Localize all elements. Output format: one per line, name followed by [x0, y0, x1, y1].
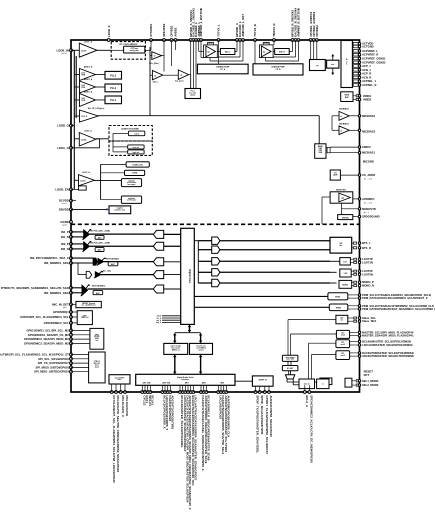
left pin IN1_P	[70, 231, 73, 234]
svg-text:CP_A: CP_A	[220, 68, 225, 71]
svg-text:Slave_SDA: Slave_SDA	[362, 319, 376, 323]
bottom pin BCLK1	[149, 391, 152, 394]
dashed analog/digital divider	[71, 223, 360, 225]
left pin LDOB_O	[70, 124, 73, 127]
right pin ACN_1	[351, 69, 354, 71]
LDO3 enable wire	[71, 188, 79, 190]
svg-text:SPDGROUND: SPDGROUND	[362, 215, 380, 219]
svg-text:CPVDDA: CPVDDA	[315, 25, 319, 37]
bottom pin BCLK5	[205, 391, 208, 394]
svg-text:esd: esd	[331, 64, 334, 66]
left pin GPIO4/DMIC2_SDA/SPI_MISO_M2	[70, 342, 73, 345]
svg-text:AVDD1_A: AVDD1_A	[84, 78, 93, 81]
top pin CPVDD1_A/VBSTX	[309, 39, 312, 42]
svg-text:mst2: mst2	[341, 343, 345, 346]
right pin LOUT1N	[358, 261, 360, 263]
svg-text:+mixers: +mixers	[198, 349, 204, 351]
sound trigger box	[282, 355, 298, 361]
svg-text:IN1_N: IN1_N	[61, 235, 69, 239]
right pin MICBIAS2	[358, 115, 360, 117]
svg-text:SPI / I2C: SPI / I2C	[94, 363, 101, 365]
master i2c box 2	[336, 340, 350, 348]
bottom pin CYCLE	[141, 391, 144, 394]
wire micbias inputs	[332, 115, 339, 117]
svg-text:AIF4: AIF4	[202, 382, 206, 385]
svg-text:IN4_P/TDOUT1_SDA/DWS_SADB/DMIC: IN4_P/TDOUT1_SDA/DWS_SADB/DMIC1_SDA+PN_S…	[0, 286, 69, 290]
left pin SPI_CS_S/UTDX/GPIO7	[70, 362, 73, 365]
top pin CPVDD2_A/VBSPX	[312, 39, 315, 42]
LDO3 feedback box	[79, 186, 87, 190]
svg-text:(rs ...): (rs ...)	[364, 212, 369, 214]
svg-text:DAC R: DAC R	[279, 51, 285, 54]
svg-text:CP_B: CP_B	[276, 69, 281, 71]
svg-text:ACPSEL_1: ACPSEL_1	[362, 79, 376, 83]
svg-text:SEL2_MODE: SEL2_MODE	[362, 383, 378, 387]
master wires down	[291, 333, 337, 335]
input row mid mux	[77, 263, 79, 275]
svg-text:AIF3: AIF3	[185, 382, 189, 385]
svg-text:GPIO6/SPI_SCL_FLASH/DMIC3_SCL: GPIO6/SPI_SCL_FLASH/DMIC3_SCL	[20, 315, 69, 319]
svg-text:VMID2: VMID2	[363, 98, 372, 102]
svg-text:Digital Core: Digital Core	[188, 269, 191, 283]
hp amp L	[208, 42, 214, 45]
right pin ACPSEL_R	[351, 84, 354, 86]
right pin MASTER_SDA	[358, 335, 360, 337]
charge pump box L	[197, 64, 248, 74]
left pin MIC_IN_DET	[70, 303, 73, 306]
input row y234.1	[71, 231, 84, 233]
svg-text:async sample: async sample	[170, 346, 181, 348]
svg-text:GPIO4/DMIC2_SDA/SPI_MISO_M2: GPIO4/DMIC2_SDA/SPI_MISO_M2	[24, 341, 69, 345]
svg-text:PDM1: PDM1	[335, 296, 340, 298]
svg-text:MICBIAS3: MICBIAS3	[362, 130, 375, 134]
bottom pin MCLK1	[119, 391, 122, 394]
svg-text:MIC_IN_DET: MIC_IN_DET	[52, 302, 69, 306]
wire DBVDD	[71, 208, 107, 210]
bottom pin LRCLK3	[181, 391, 184, 394]
svg-text:PLL3: PLL3	[110, 74, 117, 77]
right pin VMID2	[353, 99, 356, 101]
VMID buffer	[341, 92, 353, 102]
right pin MONOVDD	[358, 208, 360, 210]
ldo rail lower	[73, 126, 75, 190]
svg-text:ADCDAT2/GPIO25/TWI3: ADCDAT2/GPIO25/TWI3	[170, 395, 174, 429]
svg-text:PDM2: PDM2	[336, 307, 341, 309]
accessory-detect block U_ACC	[341, 41, 352, 88]
svg-text:ld: ld	[154, 76, 156, 78]
svg-text:IN1_P: IN1_P	[61, 230, 69, 234]
svg-text:OUTR: OUTR	[264, 43, 270, 45]
vref box with arrows	[327, 60, 339, 68]
svg-text:(rs ... ers): (rs ... ers)	[364, 179, 372, 181]
bottom pin EXTCLK	[110, 391, 113, 394]
svg-text:MONO_N: MONO_N	[362, 284, 374, 288]
svg-text:LRCLK6/MASTER_SDA2/GPIO13/DWSC: LRCLK6/MASTER_SDA2/GPIO13/DWSC	[362, 343, 413, 347]
svg-text:ACTGND: ACTGND	[362, 45, 374, 49]
right pin BTS_L	[358, 242, 360, 244]
svg-text:spk: spk	[341, 198, 344, 200]
cs_addr box	[330, 170, 340, 180]
bottom pin BCLK3	[179, 391, 182, 394]
svg-text:LDO3: LDO3	[80, 181, 85, 183]
left pin DCVDD	[70, 199, 73, 202]
right pin ACPVREF_L	[351, 50, 354, 52]
svg-text:x1: x1	[340, 116, 342, 118]
svg-text:slv: slv	[341, 320, 344, 322]
svg-text:BCLK5/SWCLK_DBG/GPIO18/MASTER_: BCLK5/SWCLK_DBG/GPIO18/MASTER_SDA9	[206, 395, 210, 460]
svg-text:MONO: MONO	[343, 284, 349, 286]
svg-text:AVDD2: AVDD2	[174, 27, 178, 37]
right pin DACDAT6/MA	[358, 352, 360, 354]
left pin LDOB_IN	[70, 49, 73, 52]
svg-text:AUXPDM/GPIO26/DWS6_CLK: AUXPDM/GPIO26/DWS6_CLK	[226, 395, 230, 438]
svg-text:LO1: LO1	[343, 261, 347, 263]
svg-text:IN2_P: IN2_P	[61, 242, 69, 246]
top pin DACREF_L	[195, 39, 198, 42]
svg-text:GPIO5/IRQ1: GPIO5/IRQ1	[53, 310, 69, 314]
regulator dashed box upper	[109, 126, 152, 142]
input row IN4	[71, 287, 82, 289]
left pin LDOA_O	[70, 146, 73, 149]
svg-text:ACP_1: ACP_1	[362, 64, 371, 68]
svg-text:clocks: clocks	[190, 94, 195, 96]
reg rounded box 4	[101, 199, 122, 201]
svg-text:MCLKX2/GPIO: MCLKX2/GPIO	[125, 395, 129, 416]
svg-text:ADC: ADC	[98, 236, 103, 239]
sample rate conv box 1	[164, 343, 188, 354]
left pin IN3_P/N V4/DMIC0CL_SDA_X	[70, 257, 73, 260]
right pin LOUT2N	[358, 273, 360, 275]
svg-text:PDM_DAT2/GPIO8/ADCDAT_SDA/DMIC: PDM_DAT2/GPIO8/ADCDAT_SDA/DMIC3_SCL/AUXP…	[362, 307, 435, 311]
wire mono box to MONOVDD	[341, 203, 343, 209]
top pin AMPGND_L_BST	[242, 39, 245, 42]
right pin ACPVREF_R	[351, 54, 354, 56]
left pin GPIO1/DWS1_SCL/SPI_SCL_M2	[70, 329, 73, 332]
right pin MONO_P	[358, 281, 360, 283]
svg-text:ADC: ADC	[111, 263, 116, 266]
svg-text:LDO1_A: LDO1_A	[84, 40, 92, 43]
svg-text:MASTER_SDA4/SPI_MOSI_FLASH/GP4: MASTER_SDA4/SPI_MOSI_FLASH/GP41	[362, 334, 414, 338]
svg-text:FREF2: FREF2	[362, 145, 371, 149]
svg-text:LO2: LO2	[344, 273, 348, 275]
svg-text:slave: slave	[95, 365, 99, 367]
right pin VMID1	[353, 95, 356, 97]
svg-text:CTRL IF: CTRL IF	[94, 361, 100, 363]
dac row tag y283.0	[198, 282, 211, 284]
right pin FREF2	[358, 146, 360, 148]
svg-text:freq_gener: freq_gener	[175, 81, 184, 83]
gpio box	[77, 311, 92, 325]
right pin ACTVDD	[351, 43, 354, 45]
svg-text:LDOB_IN: LDOB_IN	[57, 48, 69, 52]
svg-text:LOUT2N: LOUT2N	[362, 272, 373, 276]
bottom pin DACDAT2	[166, 391, 169, 394]
svg-text:ACPVREF_R: ACPVREF_R	[362, 53, 378, 57]
left pin LDOB_EN	[70, 188, 73, 191]
svg-text:AMPGND_L_BST: AMPGND_L_BST	[241, 14, 245, 37]
right pin AVDDRF1	[358, 198, 360, 200]
right pin CS_ADDR	[358, 174, 360, 176]
bottom pin ADCDAT4	[202, 391, 205, 394]
LDO2 feedback	[96, 138, 100, 140]
svg-text:AUXDAT/DWS6_SDA/GPIO30: AUXDAT/DWS6_SDA/GPIO30	[269, 395, 273, 437]
svg-text:low-cages: low-cages	[128, 184, 136, 186]
svg-text:IN3_N/DMIC1_SDA: IN3_N/DMIC1_SDA	[44, 261, 69, 265]
svg-text:MCLK1/GPO_X: MCLK1/GPO_X	[121, 395, 125, 417]
left pin GPIO3/DMIC2_SDA/SPI_MOSI_M2	[70, 338, 73, 341]
svg-text:MONO_P: MONO_P	[362, 280, 374, 284]
bottom pin ADCDAT3	[187, 391, 190, 394]
left pin GPIO5/IRQ1	[70, 311, 73, 314]
svg-text:(core): (core)	[62, 203, 67, 205]
svg-text:BCLK1: BCLK1	[150, 395, 154, 405]
bottom pin ADCDAT5	[222, 391, 225, 394]
right pin MONO_N	[358, 284, 360, 286]
always on box	[282, 366, 298, 371]
digital core block	[181, 228, 195, 324]
PLL3 box	[105, 71, 122, 79]
svg-text:logic ret: logic ret	[133, 151, 140, 154]
right pin Slave_SCL	[358, 317, 360, 319]
svg-text:LDOD_X: LDOD_X	[107, 25, 111, 36]
dmic box pins	[304, 385, 306, 392]
svg-text:ACN_R: ACN_R	[362, 75, 371, 79]
sample rate conv box 2	[190, 343, 213, 354]
top pin AMPREF_L	[197, 39, 200, 42]
right pin SEL1_MODE	[358, 380, 360, 382]
wire cp R supply	[254, 40, 256, 64]
bottom pin AUXDAT	[268, 391, 271, 394]
svg-text:DFT: DFT	[364, 373, 370, 377]
digital audio interface box	[136, 374, 235, 385]
top pin SYSVDD1	[150, 39, 153, 42]
hp dac box L	[220, 49, 235, 55]
left pin SPI_SCL_S/FLB/GPIO6	[70, 357, 73, 360]
svg-text:AVDD1_A: AVDD1_A	[84, 66, 93, 69]
svg-text:MONO MIX: MONO MIX	[336, 189, 347, 191]
hp amp R	[263, 42, 269, 45]
svg-text:TSTVX_R: TSTVX_R	[253, 24, 257, 37]
right pin ACPVREF_OSNS1	[351, 58, 354, 60]
wires hp R pins	[273, 40, 275, 45]
gpio m2 box	[90, 328, 104, 349]
input row y246.2	[71, 243, 84, 245]
svg-text:AIF2 TDM: AIF2 TDM	[162, 382, 170, 385]
reg rounded box 2	[101, 172, 125, 174]
svg-text:LDO_R: LDO_R	[82, 116, 89, 118]
svg-text:ld: ld	[154, 56, 156, 58]
svg-text:io: io	[322, 383, 323, 385]
master i2c box 3	[336, 351, 350, 360]
svg-text:CORE: CORE	[132, 173, 138, 175]
bottom pin MCLK2	[115, 391, 118, 394]
right pin LOUT2P	[358, 270, 360, 272]
left pin DBVDD	[70, 208, 73, 211]
bottom pin DAT1	[144, 391, 147, 394]
svg-text:supplies: supplies	[117, 208, 124, 210]
master i2c box 1	[336, 330, 349, 338]
right pin ACN_R	[351, 76, 354, 78]
slave wire to trigger	[288, 319, 336, 321]
svg-text:IN4_N/DMIC1_SDA: IN4_N/DMIC1_SDA	[44, 291, 69, 295]
dac row tag y240.7	[198, 240, 211, 242]
svg-text:VMID1: VMID1	[363, 94, 372, 98]
right pin MASTER_SCL	[358, 331, 360, 333]
sys amp 2	[152, 71, 162, 80]
svg-text:(an in): (an in)	[61, 53, 66, 55]
left pin IN4_P/TDOUT1_SDA/DWS_SADB/DMIC1_SDA+PN_SAD	[70, 286, 73, 289]
svg-text:SPKVDDL: SPKVDDL	[162, 23, 166, 37]
spi slave box	[89, 352, 106, 383]
top pin YMXVX_R	[273, 39, 276, 42]
svg-text:LDO2: LDO2	[81, 139, 86, 141]
svg-text:GPOUT_CLK/GPIO29/DWS6_SCL/BOOT: GPOUT_CLK/GPIO29/DWS6_SCL/BOOT2	[265, 395, 269, 454]
svg-text:IN1 PGA (-6dB...+30dB): IN1 PGA (-6dB...+30dB)	[90, 230, 110, 233]
dac row tag y249.7	[198, 249, 211, 251]
bottom pin AUXPDM	[225, 391, 228, 394]
top pin AMPREF_R_BST2/VB	[297, 39, 300, 42]
bottom pin BFLX_A	[303, 391, 306, 394]
bottom pin DACDAT5	[220, 391, 223, 394]
wire cp L supply	[218, 40, 220, 64]
svg-text:MCLK2/GPIO_SEL/TWI_CONFIG2/DWS: MCLK2/GPIO_SEL/TWI_CONFIG2/DWS2_SDA/GPIO…	[116, 395, 120, 472]
top pin AVDD2	[174, 39, 177, 42]
sys amp 1	[152, 52, 162, 60]
svg-text:SPDIF_TX/GPIO27/MASTER_SDA7/SS: SPDIF_TX/GPIO27/MASTER_SDA7/SSEL	[256, 395, 260, 453]
left pin GPIO3/DMIC2_SCL	[70, 322, 73, 325]
wire LDO1 out	[97, 49, 111, 51]
top pin HPVDD_R_SNS/VX3	[291, 39, 294, 42]
right pin SPKGROUND	[358, 215, 360, 217]
mode select box	[345, 378, 352, 387]
bottom pin LRCLK5	[217, 391, 220, 394]
left pin IN2_P	[70, 243, 73, 246]
svg-text:MASTER_SCL3/SPI_MISO_FLASH/GP4: MASTER_SCL3/SPI_MISO_FLASH/GP40	[362, 330, 414, 334]
svg-text:ADC: ADC	[98, 249, 103, 252]
bottom pin GPOUT_CLK	[263, 391, 266, 394]
svg-text:MONOVTD: MONOVTD	[362, 207, 376, 211]
spdif box	[252, 376, 273, 386]
right pin MICBIAS3	[358, 129, 360, 131]
row adjust wires	[329, 241, 331, 243]
left pin GPIO2/DWS1_SDA/SPI_CS_M2	[70, 333, 73, 336]
svg-text:MICBIAS1: MICBIAS1	[362, 151, 375, 155]
top pin TSTVX_L	[217, 39, 220, 42]
OTP inner box	[124, 46, 145, 53]
left pin DGND	[70, 221, 73, 224]
svg-text:x1: x1	[340, 130, 342, 132]
headset output box	[330, 237, 352, 253]
dac row tag y261.3	[198, 260, 211, 262]
regulator inner box 2	[128, 145, 144, 149]
bottom pin DACDAT4	[200, 391, 203, 394]
right pin Slave_SDA	[358, 320, 360, 322]
svg-text:AIF5: AIF5	[220, 382, 224, 385]
lineout2 box	[340, 269, 351, 277]
svg-text:ADR: ADR	[333, 174, 338, 177]
svg-text:SEL1_MODE: SEL1_MODE	[362, 379, 378, 383]
top pin HPGND_A	[236, 39, 239, 42]
right pin ADCDAT6/MA	[358, 355, 360, 357]
right pin MICBIAS1	[358, 152, 360, 154]
rail to regulator list	[100, 164, 102, 199]
svg-text:mst1: mst1	[341, 334, 345, 337]
bottom pin stubs	[111, 384, 113, 392]
top pin DACVDD_L_SNS/VX2	[192, 39, 195, 42]
svg-text:CS_ADDR: CS_ADDR	[362, 173, 375, 177]
svg-text:IN3 PGA/DMIC1: IN3 PGA/DMIC1	[106, 258, 119, 261]
bottom pin DACDAT3	[184, 391, 187, 394]
right pin ACPSEL_1	[351, 80, 354, 82]
svg-text:retent: retent	[134, 132, 139, 135]
svg-text:AVDDRF1: AVDDRF1	[362, 197, 375, 201]
bottom pin SPDIF_TX	[254, 391, 257, 394]
svg-text:IN3_P/N V4/DMIC0CL_SDA_X: IN3_P/N V4/DMIC0CL_SDA_X	[30, 256, 69, 260]
cp regulator box	[310, 60, 326, 71]
bottom pin WCLK1	[146, 391, 149, 394]
svg-text:LDO1: LDO1	[81, 51, 87, 53]
wire RF LDO output rail	[98, 115, 319, 117]
svg-text:LDOB_O: LDOB_O	[57, 124, 69, 128]
regulator inner box 3	[128, 150, 144, 154]
wire mono amp input	[322, 196, 330, 198]
svg-text:LDOB_EN: LDOB_EN	[55, 187, 68, 191]
svg-text:IN4 PGA/DMIC2: IN4 PGA/DMIC2	[92, 284, 105, 287]
svg-text:BTS_L: BTS_L	[362, 241, 371, 245]
svg-text:EXTCLK/BFNT_SCL_FLASH/DWS1_SCL: EXTCLK/BFNT_SCL_FLASH/DWS1_SCLK/TWI_LDO4…	[112, 395, 116, 483]
right pin ACP_R	[351, 73, 354, 75]
reference generator box	[315, 144, 326, 159]
pdm interface 1	[194, 295, 328, 297]
svg-text:LDO3_A: LDO3_A	[82, 171, 90, 174]
clocking box bottom left	[109, 375, 130, 384]
svg-text:LRCLK4/TRACEDATA3/DWS4_SDA/MAS: LRCLK4/TRACEDATA3/DWS4_SDA/MASTER_SDA6/G…	[193, 395, 197, 480]
svg-text:DCVDD: DCVDD	[59, 199, 69, 203]
reg rounded box 3	[121, 179, 141, 187]
svg-text:ADCDAT6/MASTER_SDA2/GTO05/DWSE: ADCDAT6/MASTER_SDA2/GTO05/DWSE	[362, 354, 414, 358]
input row IN3	[71, 257, 93, 259]
top pin LDOD_X	[107, 39, 110, 42]
left pin IN2_N	[70, 248, 73, 251]
svg-text:mem ret: mem ret	[133, 146, 140, 149]
wire reference drop	[318, 116, 320, 144]
svg-text:SPI M2: SPI M2	[94, 336, 99, 338]
DBVDD supply box	[109, 206, 131, 214]
svg-text:YMXVX_R: YMXVX_R	[272, 23, 276, 36]
svg-text:ACN_1: ACN_1	[362, 68, 371, 72]
svg-text:ALWAYS ON DOMAIN: ALWAYS ON DOMAIN	[121, 127, 139, 130]
svg-text:TSTVX_L: TSTVX_L	[217, 24, 221, 37]
wire LDOB_IN	[71, 49, 79, 51]
svg-text:ACPVREF_L: ACPVREF_L	[362, 49, 378, 53]
dac feed rail	[197, 241, 199, 283]
core to aif arrows	[189, 326, 191, 332]
svg-text:(det): (det)	[63, 306, 67, 309]
svg-text:AMPREF_R_BST2/VB: AMPREF_R_BST2/VB	[297, 8, 301, 37]
tag IN3	[153, 258, 163, 266]
top pin CPVDDA	[315, 39, 318, 42]
svg-text:LDOA_O: LDOA_O	[57, 146, 69, 150]
right pin ACPVREF_OSNS2	[351, 61, 354, 63]
svg-text:DGND: DGND	[61, 220, 69, 224]
svg-text:CODEC LDO: CODEC LDO	[132, 164, 143, 166]
reg rounded box 1	[101, 163, 127, 165]
dsp io box	[317, 379, 329, 389]
funnel wires	[286, 379, 288, 382]
svg-text:MICBIAS3: MICBIAS3	[339, 122, 349, 125]
charge pump box R	[253, 64, 303, 75]
funnel shape	[286, 375, 295, 379]
